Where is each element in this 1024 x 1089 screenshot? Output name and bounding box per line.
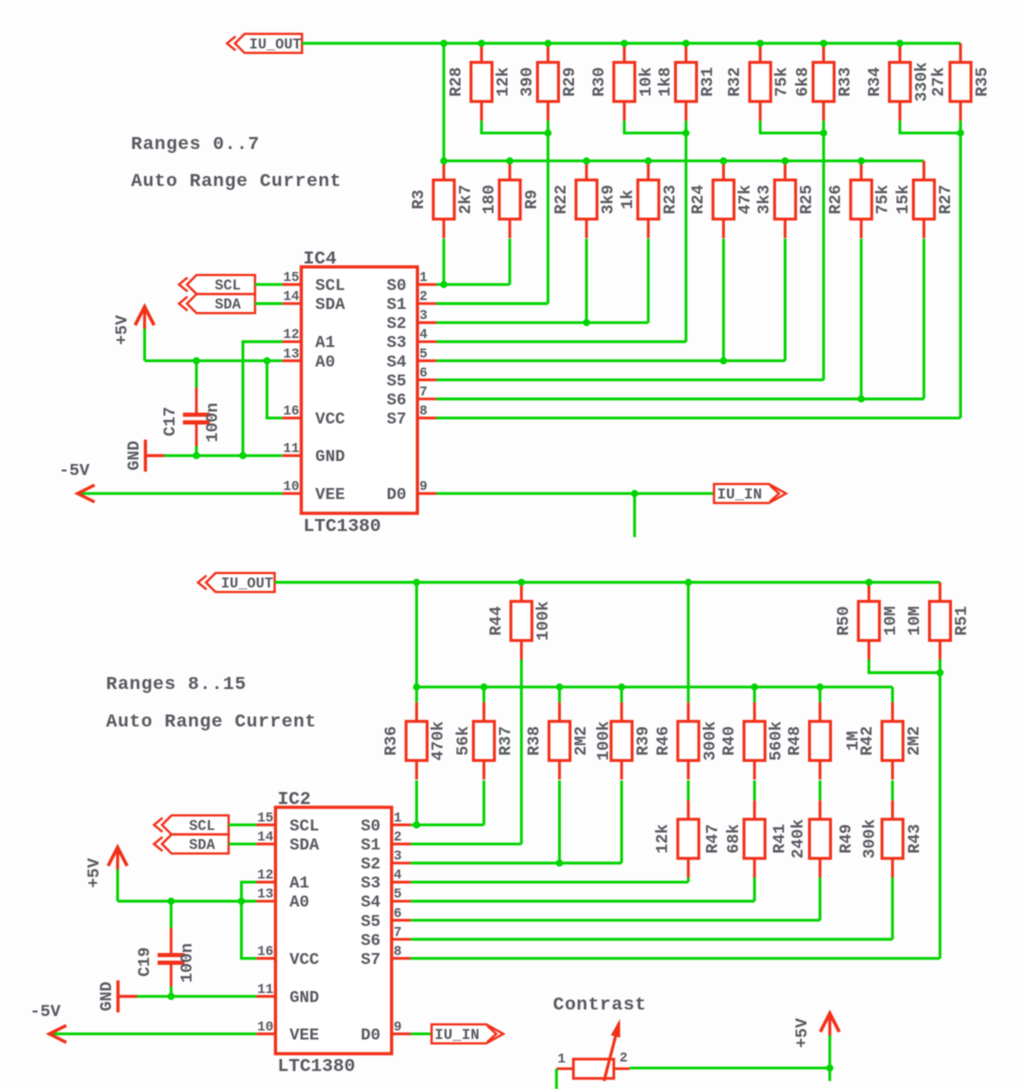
svg-text:IC2: IC2 <box>278 789 311 810</box>
resistor R24 <box>713 161 734 238</box>
svg-text:S3: S3 <box>361 874 381 893</box>
pin 16 VCC of IC2 <box>256 945 319 969</box>
pin 7 S6 of IC2 <box>361 926 411 950</box>
svg-text:R51: R51 <box>952 606 971 636</box>
resistor R26 <box>851 161 872 238</box>
flag IU_IN (upper) <box>714 484 786 504</box>
junction <box>858 395 865 402</box>
svg-text:S6: S6 <box>387 390 407 409</box>
svg-text:R39: R39 <box>634 726 653 756</box>
svg-text:S4: S4 <box>387 352 407 371</box>
svg-text:5: 5 <box>419 347 427 362</box>
junction <box>440 281 447 288</box>
svg-text:75k: 75k <box>873 185 892 215</box>
junction <box>820 40 827 47</box>
wire +5V stub down <box>828 1068 831 1081</box>
svg-text:13: 13 <box>283 347 299 362</box>
wire A1/VCC link <box>241 882 256 958</box>
supply symbol -5V (upper) <box>59 462 282 502</box>
resistor R32 <box>750 43 771 120</box>
pin 4 S3 of IC4 <box>387 328 437 352</box>
junction <box>518 579 525 586</box>
wire <box>891 687 894 702</box>
wire second rail <box>444 159 924 162</box>
svg-text:R25: R25 <box>797 185 816 215</box>
wire pair link <box>482 121 549 133</box>
junction <box>782 157 789 164</box>
svg-text:R22: R22 <box>552 185 571 215</box>
wire pair link R50-R51 <box>869 660 940 673</box>
wire series link <box>687 781 690 801</box>
junction <box>544 40 551 47</box>
junction <box>816 683 823 690</box>
flag SDA (lower) <box>154 835 229 855</box>
resistor R23 <box>638 161 659 238</box>
resistor R49 <box>810 800 831 877</box>
svg-text:S5: S5 <box>387 371 407 390</box>
wire S-pin net <box>436 321 648 324</box>
pin 14 SDA of IC2 <box>256 830 319 854</box>
wire resistor to pin row <box>923 239 926 399</box>
svg-text:S2: S2 <box>387 314 407 333</box>
flag IU_OUT (upper) <box>227 34 302 54</box>
svg-text:LTC1380: LTC1380 <box>278 1056 356 1077</box>
pin 16 VCC of IC4 <box>282 404 345 428</box>
junction <box>826 1064 833 1071</box>
junction <box>583 319 590 326</box>
wire resistor to pin row <box>687 878 690 883</box>
junction <box>631 490 638 497</box>
svg-text:1k: 1k <box>618 190 637 210</box>
junction <box>645 157 652 164</box>
resistor R25 <box>775 161 796 238</box>
svg-text:2: 2 <box>619 1052 627 1067</box>
wire series link <box>753 781 756 801</box>
svg-text:S1: S1 <box>361 835 381 854</box>
svg-text:16: 16 <box>283 404 299 419</box>
svg-text:VCC: VCC <box>290 950 320 969</box>
svg-text:R27: R27 <box>936 185 955 215</box>
svg-text:R30: R30 <box>589 67 608 97</box>
svg-text:R34: R34 <box>865 67 884 97</box>
junction <box>556 683 563 690</box>
svg-text:S4: S4 <box>361 893 381 912</box>
svg-text:3k3: 3k3 <box>755 185 774 215</box>
resistor R34 <box>889 43 910 120</box>
svg-text:-5V: -5V <box>30 1003 61 1022</box>
wire SCL <box>229 824 257 827</box>
svg-text:R29: R29 <box>560 67 579 97</box>
wire to pin S7 <box>939 660 942 959</box>
wire S-pin net <box>436 302 548 305</box>
svg-text:Auto Range Current: Auto Range Current <box>131 171 342 192</box>
capacitor C19 <box>158 901 185 996</box>
svg-text:7: 7 <box>419 385 427 400</box>
pin 10 VEE of IC4 <box>282 480 345 504</box>
svg-text:R44: R44 <box>486 606 505 636</box>
svg-text:10M: 10M <box>905 606 924 636</box>
resistor R42 <box>882 702 903 779</box>
svg-text:15: 15 <box>283 271 299 286</box>
pin 5 S4 of IC2 <box>361 888 411 912</box>
wire SCL <box>255 283 282 286</box>
svg-text:R47: R47 <box>703 824 722 854</box>
svg-text:240k: 240k <box>789 819 808 859</box>
svg-text:4: 4 <box>419 328 427 343</box>
svg-text:R26: R26 <box>826 185 845 215</box>
wire second rail (lower) <box>417 686 893 689</box>
wire S-pin net <box>436 283 509 286</box>
svg-text:SCL: SCL <box>290 816 320 835</box>
svg-text:300k: 300k <box>860 819 879 859</box>
wire resistor to pin row <box>558 781 561 864</box>
svg-text:3k9: 3k9 <box>599 185 618 215</box>
wire resistor to pin row <box>784 239 787 361</box>
resistor R43 <box>882 800 903 877</box>
wire resistor to pin row <box>620 781 623 864</box>
pin 1 S0 of IC2 <box>361 811 411 835</box>
potentiometer Contrast <box>557 1019 630 1081</box>
svg-text:2k7: 2k7 <box>456 185 475 215</box>
svg-text:8: 8 <box>419 404 427 419</box>
junction <box>583 157 590 164</box>
junction <box>820 129 827 136</box>
resistor R50 <box>858 582 879 659</box>
wire to pin <box>822 121 825 380</box>
junction <box>413 683 420 690</box>
pin 12 A1 of IC4 <box>282 328 335 352</box>
supply symbol +5V (bottom right) <box>793 1013 840 1068</box>
wire <box>415 687 418 702</box>
svg-text:100n: 100n <box>178 943 197 983</box>
svg-text:SDA: SDA <box>290 835 320 854</box>
wire +5V / A0 rail (lower) <box>118 900 257 903</box>
wire resistor to pin row <box>585 239 588 323</box>
resistor R38 <box>549 702 570 779</box>
svg-text:10k: 10k <box>636 67 655 97</box>
svg-text:560k: 560k <box>767 721 786 761</box>
resistor R28 <box>471 43 492 120</box>
svg-text:GND: GND <box>315 447 345 466</box>
svg-text:68k: 68k <box>724 824 743 854</box>
svg-text:16: 16 <box>257 945 273 960</box>
svg-text:2M2: 2M2 <box>572 726 591 756</box>
pin 8 S7 of IC4 <box>387 404 437 428</box>
svg-text:R38: R38 <box>525 726 544 756</box>
wire S-pin net <box>436 378 823 381</box>
resistor R22 <box>576 161 597 238</box>
svg-text:1: 1 <box>394 811 402 826</box>
wire R44 to pin <box>520 660 523 844</box>
svg-text:11: 11 <box>283 442 299 457</box>
flag SCL (lower) <box>154 815 229 835</box>
wire S-pin net <box>436 340 686 343</box>
svg-text:SDA: SDA <box>215 298 241 314</box>
resistor R40 <box>744 702 765 779</box>
pin 6 S5 of IC2 <box>361 907 411 931</box>
wire R46 top <box>687 582 690 702</box>
wire <box>482 687 485 702</box>
junction <box>858 157 865 164</box>
junction <box>168 993 175 1000</box>
svg-text:14: 14 <box>283 290 299 305</box>
svg-text:5: 5 <box>394 888 402 903</box>
junction <box>720 357 727 364</box>
resistor R47 <box>678 800 699 877</box>
svg-text:R35: R35 <box>973 67 992 97</box>
svg-text:S0: S0 <box>361 816 381 835</box>
svg-text:10: 10 <box>283 480 299 495</box>
resistor R31 <box>676 43 697 120</box>
junction <box>440 157 447 164</box>
svg-text:11: 11 <box>257 983 273 998</box>
svg-text:9: 9 <box>419 480 427 495</box>
pin 1 S0 of IC4 <box>387 271 437 295</box>
svg-text:S5: S5 <box>361 912 381 931</box>
wire S-pin net <box>411 900 755 903</box>
supply symbol +5V (upper) <box>113 307 155 361</box>
wire resistor to pin row <box>442 239 445 285</box>
junction <box>682 129 689 136</box>
pin 13 A0 of IC2 <box>256 888 309 912</box>
wire resistor to pin row <box>482 781 485 825</box>
svg-text:180: 180 <box>479 185 498 215</box>
svg-text:15k: 15k <box>893 185 912 215</box>
resistor R37 <box>473 702 494 779</box>
wire S-pin net <box>436 398 923 401</box>
pin 7 S6 of IC4 <box>387 385 437 409</box>
wire S-pin net <box>411 824 484 827</box>
svg-text:R36: R36 <box>382 726 401 756</box>
wire A1 to GND <box>243 342 282 456</box>
svg-text:470k: 470k <box>429 721 448 761</box>
svg-text:6k8: 6k8 <box>793 67 812 97</box>
wire pair link <box>624 121 686 133</box>
flag IU_IN (lower) <box>432 1024 504 1044</box>
svg-text:A0: A0 <box>315 352 335 371</box>
svg-text:IC4: IC4 <box>303 248 336 269</box>
wire <box>753 687 756 702</box>
junction <box>621 40 628 47</box>
svg-text:12: 12 <box>283 328 299 343</box>
svg-text:D0: D0 <box>387 485 407 504</box>
resistor R44 <box>511 582 532 659</box>
junction <box>936 669 943 676</box>
wire net IU_IN <box>436 492 714 495</box>
wire net IU_OUT rail (lower) <box>275 581 940 584</box>
svg-text:300k: 300k <box>700 721 719 761</box>
pin 5 S4 of IC4 <box>387 347 437 371</box>
svg-text:100n: 100n <box>203 403 222 443</box>
wire net IU_OUT rail <box>302 42 961 45</box>
svg-text:+5V: +5V <box>85 858 104 888</box>
resistor R30 <box>614 43 635 120</box>
junction <box>757 40 764 47</box>
svg-text:Contrast: Contrast <box>553 995 647 1016</box>
svg-text:R42: R42 <box>858 726 877 756</box>
svg-text:8: 8 <box>394 945 402 960</box>
svg-text:IU_OUT: IU_OUT <box>249 37 302 53</box>
supply symbol -5V (lower) <box>30 1003 256 1042</box>
svg-text:13: 13 <box>257 888 273 903</box>
resistor R9 <box>499 161 520 238</box>
pin 3 S2 of IC4 <box>387 309 437 333</box>
svg-text:A1: A1 <box>290 874 310 893</box>
svg-text:S7: S7 <box>387 409 407 428</box>
svg-text:R3: R3 <box>409 190 428 210</box>
svg-text:S0: S0 <box>387 276 407 295</box>
junction <box>685 579 692 586</box>
junction <box>618 683 625 690</box>
wire S-pin net <box>411 881 689 884</box>
svg-text:S1: S1 <box>387 295 407 314</box>
svg-text:VEE: VEE <box>315 485 345 504</box>
pin 15 SCL of IC2 <box>256 811 319 835</box>
svg-text:A1: A1 <box>315 333 335 352</box>
svg-text:SDA: SDA <box>189 838 215 854</box>
pin 3 S2 of IC2 <box>361 850 411 874</box>
junction <box>480 683 487 690</box>
pin 11 GND of IC4 <box>282 442 345 466</box>
svg-text:12k: 12k <box>653 824 672 854</box>
svg-text:2M2: 2M2 <box>905 726 924 756</box>
svg-text:390: 390 <box>518 67 537 97</box>
wire resistor to pin row <box>722 239 725 361</box>
resistor R3 <box>433 161 454 238</box>
svg-text:R9: R9 <box>522 190 541 210</box>
resistor R36 <box>406 702 427 779</box>
capacitor C17 <box>183 361 210 456</box>
wire VCC <box>267 361 282 418</box>
pin 2 S1 of IC4 <box>387 290 437 314</box>
wire rail1-rail2 link <box>442 43 445 161</box>
junction <box>193 357 200 364</box>
svg-text:1k8: 1k8 <box>656 67 675 97</box>
wire resistor to pin row <box>819 878 822 921</box>
svg-text:14: 14 <box>257 830 273 845</box>
junction <box>193 452 200 459</box>
wire resistor to pin row <box>753 878 756 902</box>
ground GND (lower) <box>97 980 137 1012</box>
wire S-pin net <box>411 919 820 922</box>
svg-text:S2: S2 <box>361 855 381 874</box>
svg-text:R37: R37 <box>496 726 515 756</box>
svg-text:75k: 75k <box>772 67 791 97</box>
junction <box>478 40 485 47</box>
svg-text:C19: C19 <box>135 947 154 977</box>
svg-text:12: 12 <box>257 869 273 884</box>
wire to pin <box>959 121 962 418</box>
svg-text:12k: 12k <box>494 67 513 97</box>
svg-text:+5V: +5V <box>113 315 132 345</box>
wire series link <box>891 781 894 801</box>
wire resistor to pin row <box>415 781 418 825</box>
svg-text:10: 10 <box>257 1020 273 1035</box>
svg-text:R46: R46 <box>653 726 672 756</box>
IC IC2 (LTC1380) <box>276 789 392 1077</box>
pin 14 SDA of IC4 <box>282 290 345 314</box>
svg-text:A0: A0 <box>290 893 310 912</box>
svg-text:100k: 100k <box>594 721 613 761</box>
junction <box>544 129 551 136</box>
pin 9 D0 of IC2 <box>361 1020 411 1044</box>
wire SDA <box>255 302 282 305</box>
svg-text:S7: S7 <box>361 950 381 969</box>
svg-text:VEE: VEE <box>290 1025 320 1044</box>
pin 12 A1 of IC2 <box>256 869 309 893</box>
wire rail1-rail2 link <box>415 582 418 687</box>
wire S-pin net <box>411 862 622 865</box>
svg-text:4: 4 <box>394 869 402 884</box>
wire <box>558 687 561 702</box>
supply symbol +5V (lower) <box>85 847 128 901</box>
svg-text:Ranges 8..15: Ranges 8..15 <box>106 674 246 695</box>
svg-text:R32: R32 <box>725 67 744 97</box>
svg-text:R49: R49 <box>837 824 856 854</box>
svg-text:2: 2 <box>419 290 427 305</box>
junction <box>168 898 175 905</box>
resistor R41 <box>744 800 765 877</box>
resistor R46 <box>678 702 699 779</box>
wire pot pin2 to +5V <box>630 1067 830 1070</box>
wire S-pin net <box>436 359 785 362</box>
wire S-pin net <box>411 957 940 960</box>
svg-text:SCL: SCL <box>215 279 241 295</box>
svg-text:C17: C17 <box>160 407 179 437</box>
junction <box>556 859 563 866</box>
svg-text:SCL: SCL <box>189 819 215 835</box>
svg-text:+5V: +5V <box>793 1018 812 1048</box>
wire SDA <box>229 843 257 846</box>
svg-text:IU_OUT: IU_OUT <box>221 577 274 593</box>
wire series link <box>819 781 822 801</box>
resistor R39 <box>611 702 632 779</box>
wire <box>620 687 623 702</box>
svg-text:SDA: SDA <box>315 295 345 314</box>
svg-text:IU_IN: IU_IN <box>434 1027 479 1044</box>
junction <box>440 40 447 47</box>
pin 13 A0 of IC4 <box>282 347 335 371</box>
wire pair link <box>900 121 961 133</box>
junction <box>865 579 872 586</box>
junction <box>239 452 246 459</box>
svg-text:R50: R50 <box>834 606 853 636</box>
resistor R51 <box>930 582 951 659</box>
svg-text:2: 2 <box>394 830 402 845</box>
svg-text:R43: R43 <box>905 824 924 854</box>
resistor R48 <box>810 702 831 779</box>
svg-text:S6: S6 <box>361 931 381 950</box>
svg-text:3: 3 <box>394 850 402 865</box>
flag SCL (upper) <box>179 275 255 295</box>
svg-text:GND: GND <box>125 441 144 471</box>
wire resistor to pin row <box>508 239 511 285</box>
wire net IU_IN (lower) <box>411 1033 432 1036</box>
svg-text:R33: R33 <box>836 67 855 97</box>
svg-text:9: 9 <box>394 1020 402 1035</box>
svg-text:56k: 56k <box>453 726 472 756</box>
ground GND (upper) <box>125 440 165 472</box>
svg-text:GND: GND <box>290 988 320 1007</box>
wire pair link <box>760 121 823 133</box>
svg-text:15: 15 <box>257 811 273 826</box>
junction <box>506 157 513 164</box>
pin 6 S5 of IC4 <box>387 366 437 390</box>
svg-text:6: 6 <box>419 366 427 381</box>
pin 2 S1 of IC2 <box>361 830 411 854</box>
pin 15 SCL of IC4 <box>282 271 345 295</box>
resistor R27 <box>913 161 934 238</box>
